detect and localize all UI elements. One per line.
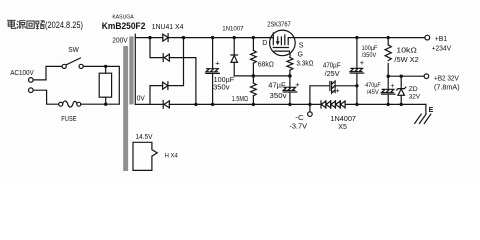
- svg-text:1N1007: 1N1007: [222, 25, 244, 32]
- node bridge minus: [194, 103, 197, 106]
- wire D2 to negative rail: [169, 58, 196, 105]
- wire AC lower to FUSE: [33, 90, 58, 104]
- resistor R2 1.5M: [250, 76, 256, 105]
- svg-text:/45V: /45V: [367, 89, 379, 96]
- svg-text:2SK3767: 2SK3767: [267, 22, 290, 29]
- kanji 源: [17, 21, 26, 29]
- svg-text:-3.7V: -3.7V: [289, 124, 307, 131]
- svg-text:-C: -C: [295, 115, 303, 122]
- svg-text:KmB250F2: KmB250F2: [102, 21, 146, 31]
- resistor R4 10k 5W X2: [385, 38, 391, 77]
- capacitor C3 47uF 350v: [283, 76, 300, 105]
- terminal -C: [308, 104, 313, 116]
- title 電源回路（2024.8.25）: [7, 20, 45, 28]
- capacitor C5 470uF 45V: [382, 76, 396, 104]
- svg-text:S: S: [299, 42, 304, 49]
- terminal +B2: [424, 74, 429, 79]
- svg-text:1.5MΩ: 1.5MΩ: [232, 96, 249, 103]
- svg-text:(7.8mA): (7.8mA): [434, 84, 460, 91]
- svg-text:10kΩ: 10kΩ: [396, 47, 416, 54]
- node C2 mid: [355, 84, 358, 87]
- svg-text:AC100V: AC100V: [10, 70, 34, 77]
- diode D3 1NU41: [163, 82, 168, 90]
- svg-text:FUSE: FUSE: [61, 116, 76, 123]
- wire FUSE to node: [81, 103, 106, 105]
- wire D3 branch: [150, 86, 163, 105]
- diode string 1N4007 X5: [321, 101, 426, 108]
- wire bias node row: [234, 75, 290, 77]
- node bias 3.3k: [288, 74, 292, 78]
- svg-text:(2024.8.25): (2024.8.25): [45, 20, 83, 30]
- node R4 top: [387, 36, 390, 39]
- node D5 top: [233, 36, 236, 39]
- capacitor C4 470uF 25V: [310, 81, 357, 104]
- svg-text:/25V: /25V: [325, 71, 340, 78]
- svg-text:100µF: 100µF: [214, 77, 235, 84]
- node R2 bottom: [252, 103, 255, 106]
- wire node to primary winding: [106, 66, 120, 104]
- svg-text:3.3kΩ: 3.3kΩ: [296, 61, 313, 68]
- svg-text:X5: X5: [338, 124, 347, 131]
- node C5 bottom: [387, 103, 390, 106]
- svg-text:+234V: +234V: [432, 45, 452, 52]
- wire top rail left: [135, 37, 163, 39]
- wire AC upper to SW: [33, 66, 62, 80]
- kanji 路: [36, 21, 45, 29]
- svg-text:ZD: ZD: [409, 86, 418, 93]
- node ZD bottom: [400, 103, 403, 106]
- node C2 top: [355, 36, 358, 39]
- diode D4 1NU41: [163, 101, 169, 109]
- svg-text:68kΩ: 68kΩ: [258, 62, 274, 69]
- svg-text:+: +: [360, 58, 365, 67]
- svg-text:+: +: [335, 86, 340, 95]
- svg-text:1NU41 X4: 1NU41 X4: [152, 24, 184, 31]
- terminal AC lower: [29, 88, 34, 93]
- svg-text:+: +: [215, 59, 220, 68]
- svg-text:200V: 200V: [112, 37, 128, 44]
- svg-text:14.5V: 14.5V: [136, 134, 153, 141]
- wire B2 row: [388, 75, 424, 77]
- wire box leads: [105, 66, 107, 104]
- wire SW to node: [83, 65, 106, 67]
- wire bottom rail mid: [169, 103, 321, 105]
- heater winding box H X4: [133, 142, 157, 170]
- svg-text:+: +: [390, 83, 394, 90]
- zener diode ZD 32V: [397, 76, 406, 104]
- wire D2 branch: [150, 38, 163, 58]
- fuse F1: [59, 101, 81, 107]
- wire top rail right: [294, 37, 425, 39]
- svg-text:/5W X2: /5W X2: [394, 57, 419, 64]
- node C3 bottom: [288, 103, 291, 106]
- terminal +B1: [425, 35, 430, 40]
- node C1 bottom: [211, 103, 214, 106]
- wire D3 to plus rail: [168, 38, 184, 86]
- transformer core bar left: [123, 46, 128, 171]
- svg-text:KASUGA: KASUGA: [112, 15, 133, 21]
- node bias 68k: [252, 74, 256, 78]
- svg-text:SW: SW: [68, 47, 79, 54]
- mosfet Q1 2SK3767: [270, 30, 296, 57]
- node 200V tap junction: [148, 36, 151, 39]
- ground E: [415, 104, 431, 123]
- svg-text:E: E: [429, 107, 434, 114]
- node bridge plus: [182, 36, 185, 39]
- transformer secondary winding: [134, 34, 136, 104]
- node C1 top: [211, 36, 214, 39]
- node B2 zener: [400, 75, 403, 78]
- svg-text:+B2 32V: +B2 32V: [434, 76, 459, 83]
- svg-text:+B1: +B1: [435, 36, 447, 43]
- svg-text:1N4007: 1N4007: [330, 116, 356, 123]
- capacitor C2 100uF 350V: [350, 38, 365, 105]
- diode D1 1NU41: [163, 34, 168, 42]
- wire bottom rail 0V segment: [135, 103, 163, 105]
- node R1 top: [252, 36, 255, 39]
- svg-text:470µF: 470µF: [323, 62, 341, 69]
- kanji 回: [27, 21, 34, 28]
- svg-text:H X4: H X4: [165, 152, 179, 159]
- svg-text:0V: 0V: [137, 95, 145, 102]
- kanji 電: [7, 20, 16, 28]
- transformer core bar right: [129, 36, 133, 104]
- svg-text:100µF: 100µF: [362, 45, 378, 52]
- svg-text:350v: 350v: [270, 93, 288, 100]
- resistor R1 68k: [250, 38, 256, 76]
- node -C: [308, 103, 311, 106]
- node primary top: [104, 65, 107, 68]
- capacitor C1 100uF 350v: [206, 38, 220, 105]
- svg-text:32V: 32V: [409, 93, 421, 100]
- diode D5 1N1007: [231, 38, 238, 76]
- svg-text:350v: 350v: [213, 85, 230, 92]
- terminal AC upper: [29, 78, 34, 83]
- switch SW: [62, 58, 83, 69]
- resistor R3 3.3k: [287, 57, 293, 76]
- svg-text:47µF: 47µF: [268, 83, 285, 90]
- surge component box across primary: [99, 73, 111, 97]
- diode D2 1NU41: [163, 54, 169, 62]
- node B2 left: [387, 75, 390, 78]
- node C2 bottom: [355, 103, 358, 106]
- svg-text:+: +: [295, 80, 300, 89]
- node primary bottom: [104, 103, 107, 106]
- svg-text:470µF: 470µF: [365, 82, 380, 89]
- wire top rail to mosfet: [168, 37, 271, 39]
- svg-text:D: D: [262, 40, 267, 47]
- svg-text:G: G: [298, 52, 303, 59]
